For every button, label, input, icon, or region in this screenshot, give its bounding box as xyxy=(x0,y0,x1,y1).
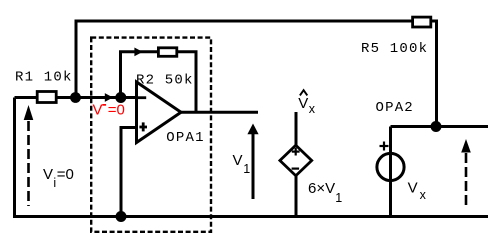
svg-text:=0: =0 xyxy=(57,166,74,183)
svg-text:OPA1: OPA1 xyxy=(166,130,204,146)
svg-text:i: i xyxy=(53,176,56,190)
svg-text:R5 100k: R5 100k xyxy=(361,41,428,57)
svg-text:R2 50k: R2 50k xyxy=(136,73,194,89)
svg-text:=0: =0 xyxy=(108,101,125,118)
svg-text:V: V xyxy=(233,152,243,169)
svg-text:V: V xyxy=(93,101,103,118)
svg-text:x: x xyxy=(309,102,316,116)
svg-text:OPA2: OPA2 xyxy=(376,100,414,116)
svg-text:6×V: 6×V xyxy=(308,180,335,197)
svg-text:R1 10k: R1 10k xyxy=(15,70,73,86)
svg-text:x: x xyxy=(420,188,427,202)
svg-text:1: 1 xyxy=(243,162,250,176)
svg-text:V: V xyxy=(408,179,418,196)
svg-text:V: V xyxy=(298,95,308,112)
svg-text:1: 1 xyxy=(335,191,342,205)
svg-text:V: V xyxy=(43,166,53,183)
